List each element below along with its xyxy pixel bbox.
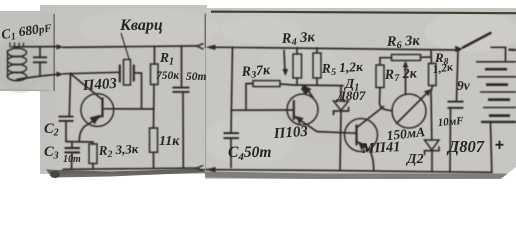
resistor 11k bottom lead: [153, 152, 155, 167]
potentiometer R6 left lead: [380, 57, 392, 59]
meter needle with arrow: [397, 92, 429, 124]
resistor R1 top lead: [154, 46, 156, 64]
svg-text:Д2: Д2: [405, 152, 424, 167]
label pointer line Kvarc: [121, 33, 129, 59]
resistor R3 body: [253, 81, 280, 87]
resistor R3 left lead: [246, 84, 253, 110]
svg-text:750к: 750к: [156, 70, 180, 82]
paper background: main left half: [40, 5, 207, 174]
zener D1 cathode bar with hooks: [334, 108, 349, 115]
zener D2 bottom lead: [431, 151, 433, 171]
wire: snippet bottom rail: [17, 74, 57, 79]
transistor VT1 base lead to right: [104, 108, 154, 110]
bottom-right corner white cut: [492, 167, 516, 186]
wire: LC to crystal (y72): [63, 72, 119, 74]
battery plate 1 long: [476, 61, 516, 63]
resistor R5 bottom lead: [316, 78, 318, 85]
zener D1 bottom lead: [340, 111, 341, 170]
transistor VT2 collector lead: [305, 86, 313, 98]
resistor R2 body: [89, 144, 97, 164]
paper background: right half: [205, 8, 516, 179]
arrow out bottom: [57, 72, 64, 77]
capacitor C1 top lead: [39, 47, 41, 57]
zener D2 cathode bar with hooks: [425, 147, 440, 155]
capacitor C1 bottom lead: [39, 63, 41, 77]
wire: ground rail left half: [63, 168, 196, 169]
bottom shadow band left half: [46, 169, 205, 178]
arrow: top rail left end: [206, 45, 216, 50]
quartz crystal right plate: [133, 66, 135, 81]
svg-text:C450т: C450т: [228, 144, 271, 163]
transistor VT2 base bar: [293, 101, 295, 119]
resistor R4 bottom lead: [296, 78, 298, 85]
potentiometer R6 wiper stem: [405, 64, 407, 95]
svg-text:10мF: 10мF: [437, 115, 464, 129]
svg-text:Д807: Д807: [336, 88, 366, 103]
wire: drop to collector/C2: [69, 73, 70, 116]
switch blade: [463, 33, 491, 48]
svg-text:П103: П103: [272, 124, 309, 142]
transistor VT3 emitter arrow: [358, 142, 367, 151]
bottom dark blob left: [50, 171, 60, 178]
transistor VT3 base bar: [355, 126, 357, 145]
resistor R7 top lead: [379, 58, 381, 66]
wire: top rail right half: [212, 47, 460, 50]
transistor VT3 emitter lead: [358, 142, 374, 171]
zener D1 top lead: [340, 86, 342, 101]
arrow: ground rail left end: [205, 167, 215, 173]
capacitor C3 top lead: [71, 142, 73, 148]
resistor R3 right lead: [280, 84, 294, 85]
wire: ground rail right half: [206, 170, 492, 173]
right half top border line: [211, 12, 516, 14]
capacitor C3 plates: [65, 148, 81, 152]
trimmer cap 50t plates: [173, 88, 190, 92]
svg-text:11к: 11к: [159, 134, 180, 149]
LC snippet bottom edge shadow: [0, 89, 50, 92]
svg-text:R6 3к: R6 3к: [386, 33, 421, 52]
resistor R1 body: [151, 64, 159, 85]
capacitor C2 plates: [59, 117, 74, 121]
battery plate 7 long: [483, 107, 516, 109]
resistor R1 bottom lead: [153, 85, 156, 129]
arrow out top: [57, 44, 64, 49]
transistor VT3 collector lead: [358, 107, 384, 128]
svg-text:10т: 10т: [63, 154, 81, 165]
potentiometer R6 body: [392, 55, 421, 61]
zener D2 triangle: [425, 140, 440, 150]
battery plate 9 long bottom: [481, 121, 516, 123]
zener D2 top lead: [430, 90, 433, 140]
battery top terminal: [491, 47, 506, 61]
resistor R5 top lead: [316, 48, 318, 53]
transistor VT1 P403 circle: [81, 94, 114, 127]
seam: faint vertical edge between halves: [205, 13, 207, 170]
battery bottom lead / right corner: [491, 123, 492, 172]
transistor VT2 collector blob: [301, 85, 312, 95]
resistor R4 body: [293, 54, 302, 78]
wire: emitter/C2/C3/R2 junction: [66, 141, 93, 143]
battery plate 2 short: [485, 68, 507, 71]
battery plate 4 short: [486, 83, 508, 86]
svg-text:Д807: Д807: [446, 137, 485, 156]
resistor R8 bottom lead: [432, 86, 433, 91]
adjuster arrow from top rail: [284, 51, 285, 72]
meter needle arrowhead: [424, 89, 431, 96]
wire: P103 base wire: [231, 109, 294, 111]
label plus: [496, 141, 504, 149]
battery plate 3 long: [477, 76, 516, 78]
transistor VT1 collector lead: [72, 75, 102, 100]
resistor R2 leads: [92, 142, 94, 168]
transistor VT2 emitter arrow: [296, 116, 304, 125]
inductor L loops: [8, 48, 27, 56]
transistor VT1 emitter lead: [79, 116, 101, 142]
resistor R4 top lead: [296, 48, 298, 54]
battery plate 6 short: [488, 98, 510, 101]
svg-text:50т: 50т: [186, 71, 207, 83]
wire: top rail drop to R8 node: [430, 50, 433, 64]
potentiometer R6 wiper arrowhead: [403, 61, 409, 68]
resistor R7 body: [376, 65, 384, 88]
seam darker upper segment: [204, 14, 206, 48]
wire: vertical A (C4/base feed): [231, 47, 233, 133]
capacitor C2 bottom lead: [65, 121, 67, 141]
quartz crystal left plate: [119, 66, 121, 82]
svg-text:9v: 9v: [457, 78, 471, 93]
resistor R5k body (11k): [150, 128, 158, 152]
resistor R8 body: [429, 64, 437, 86]
capacitor C3 bottom lead: [71, 153, 74, 169]
quartz crystal body: [124, 60, 131, 86]
transistor VT2 emitter lead: [295, 117, 318, 132]
paper background: left LC snippet: [0, 11, 54, 91]
resistor R5 body: [313, 53, 321, 78]
capacitor 10uF bottom lead: [449, 108, 452, 172]
wire: R4/R5 bottom node: [294, 84, 344, 87]
capacitor 10uF plates: [448, 102, 464, 108]
arrow: ground rail right end: [197, 165, 204, 171]
transistor VT1 emitter arrow: [90, 115, 101, 125]
transistor VT1 base bar: [101, 99, 103, 117]
capacitor C4 plates: [224, 133, 240, 138]
resistor R7 bottom lead to meter node: [380, 88, 393, 111]
capacitor 10uF top lead: [457, 51, 459, 101]
inductor L core ticks: [10, 43, 24, 48]
potentiometer R6 right lead: [421, 56, 432, 58]
trimmer cap 50t top lead: [181, 46, 183, 87]
battery terminal dash: [509, 48, 516, 51]
arrow: top rail right end: [197, 44, 204, 50]
capacitor C1 plates: [33, 57, 47, 62]
capacitor C4 bottom lead: [230, 139, 232, 168]
battery plate 5 long: [480, 91, 516, 93]
meter circle: [392, 94, 426, 128]
svg-text:П403: П403: [81, 76, 118, 94]
wire: P103 emitter to MP41 base: [317, 132, 356, 134]
quartz right lead: [135, 73, 142, 109]
paper mottle patches: [80, 8, 220, 48]
transistor VT2 P103 circle: [287, 94, 318, 125]
wire: top rail left half: [63, 46, 197, 48]
LC snippet right edge: [53, 14, 55, 91]
battery plate 8 short: [489, 114, 510, 117]
inductor L left return: [7, 50, 9, 78]
adjuster arrowhead: [282, 69, 288, 76]
zener D1 triangle: [334, 101, 349, 111]
svg-text:Кварц: Кварц: [119, 17, 163, 34]
trimmer cap 50t bottom lead: [182, 92, 184, 167]
transistor VT3 MP41 circle: [345, 119, 378, 152]
bottom shadow band right half: [205, 172, 516, 180]
arrow: top rail right end (switch): [455, 46, 463, 52]
wire: snippet top rail: [12, 46, 57, 48]
